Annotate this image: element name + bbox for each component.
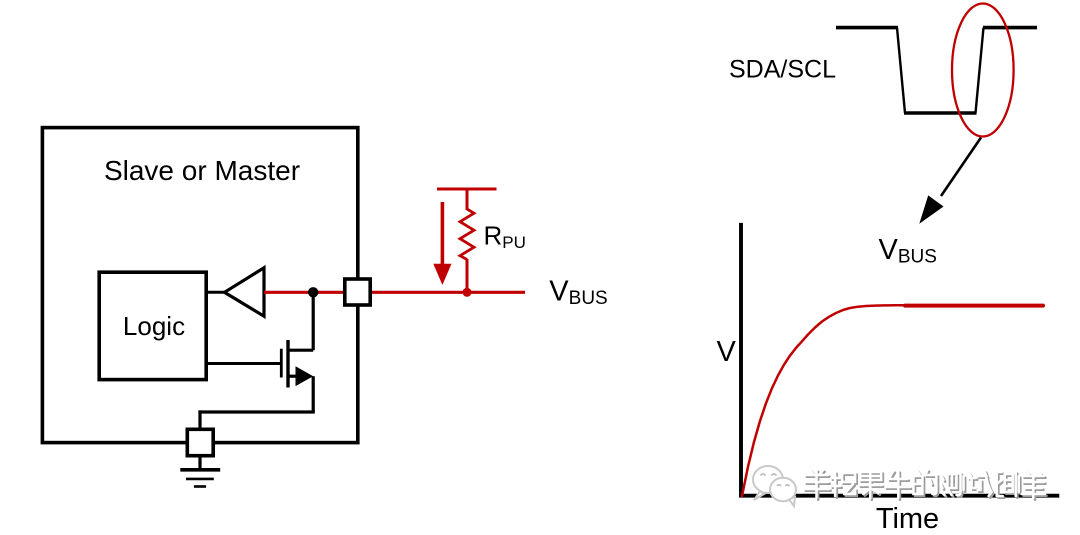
svg-text:VBUS: VBUS [549,276,607,309]
wire down to ground pin [198,410,201,430]
buffer U2 (input triangle, points left) [225,268,265,316]
graph Time axis [739,494,1059,498]
bus pin pad square on block edge [345,279,370,305]
svg-text:Time: Time [876,503,939,535]
wire gate net: logic to MOSFET gate [206,362,281,365]
logic block [99,272,206,379]
transistor Q1 source lead [288,375,300,378]
node junction dot on bus [308,287,318,297]
waveform falling edge [897,28,905,113]
IC block U1 "Slave or Master" outline [42,128,357,443]
callout arrow shaft [941,138,981,197]
waveform low segment [904,111,977,115]
current arrow (red, pointing down) shaft [441,202,445,266]
wire rail to resistor [466,189,469,210]
waveform high segment 2 [983,26,1037,30]
resistor RPU zigzag [460,209,474,260]
svg-text:Logic: Logic [123,311,185,341]
ground symbol [180,468,220,472]
svg-text:RPU: RPU [484,221,526,252]
svg-text:Slave or Master: Slave or Master [104,155,300,186]
transistor Q1 drain lead [288,349,313,352]
VBUS charging curve (red exponential) [742,305,906,496]
watermark text (stylised CJK strokes with emboss shadow) [804,470,1047,500]
graph V axis [739,223,743,498]
waveform rising edge [976,28,984,113]
settled bus level segment (red, thick) [905,304,1043,308]
wire source down [312,376,315,412]
pull-up supply rail (red) [437,188,497,191]
svg-text:SDA/SCL: SDA/SCL [729,55,836,83]
wire logic output to buffer apex [206,291,227,294]
red bus net wire inside/outside block [264,291,525,294]
transistor Q1 source arrow [296,366,314,386]
current arrow head [433,264,451,285]
wire drain up to node [312,292,315,350]
svg-text:VBUS: VBUS [879,234,937,268]
transistor Q1 channel bar [286,340,289,388]
svg-text:V: V [717,336,737,368]
wire resistor to bus [466,259,469,292]
transistor Q1 (open-drain NMOS) gate bar [280,349,283,378]
node dot resistor/bus junction (red) [463,288,472,297]
watermark chat icon [753,466,796,506]
wire pin to ground [198,456,201,470]
ground pin pad square [187,429,213,455]
waveform high segment 1 [836,26,898,30]
wire source to ground run [198,410,314,413]
highlight ellipse around rising edge (red) [952,4,1014,137]
callout arrow head [919,195,943,223]
